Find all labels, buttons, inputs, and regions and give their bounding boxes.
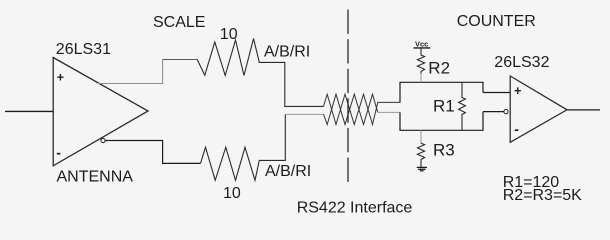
svg-text:COUNTER: COUNTER xyxy=(457,13,536,30)
svg-text:+: + xyxy=(514,84,521,98)
svg-text:+: + xyxy=(57,71,64,85)
svg-text:R2=R3=5K: R2=R3=5K xyxy=(503,187,582,204)
svg-text:-: - xyxy=(514,121,519,137)
svg-text:10: 10 xyxy=(223,185,241,202)
svg-text:26LS31: 26LS31 xyxy=(56,41,111,58)
svg-text:A/B/RI: A/B/RI xyxy=(264,44,310,61)
svg-text:10: 10 xyxy=(220,26,238,43)
svg-text:ANTENNA: ANTENNA xyxy=(57,168,134,185)
svg-text:R2: R2 xyxy=(428,59,450,78)
svg-text:RS422 Interface: RS422 Interface xyxy=(297,200,413,217)
svg-text:R1: R1 xyxy=(433,97,455,116)
svg-text:26LS32: 26LS32 xyxy=(494,54,549,71)
svg-text:R3: R3 xyxy=(433,141,455,160)
svg-text:-: - xyxy=(56,144,61,160)
svg-text:Vcc: Vcc xyxy=(415,40,428,49)
svg-text:SCALE: SCALE xyxy=(153,14,205,31)
svg-text:A/B/RI: A/B/RI xyxy=(265,163,311,180)
